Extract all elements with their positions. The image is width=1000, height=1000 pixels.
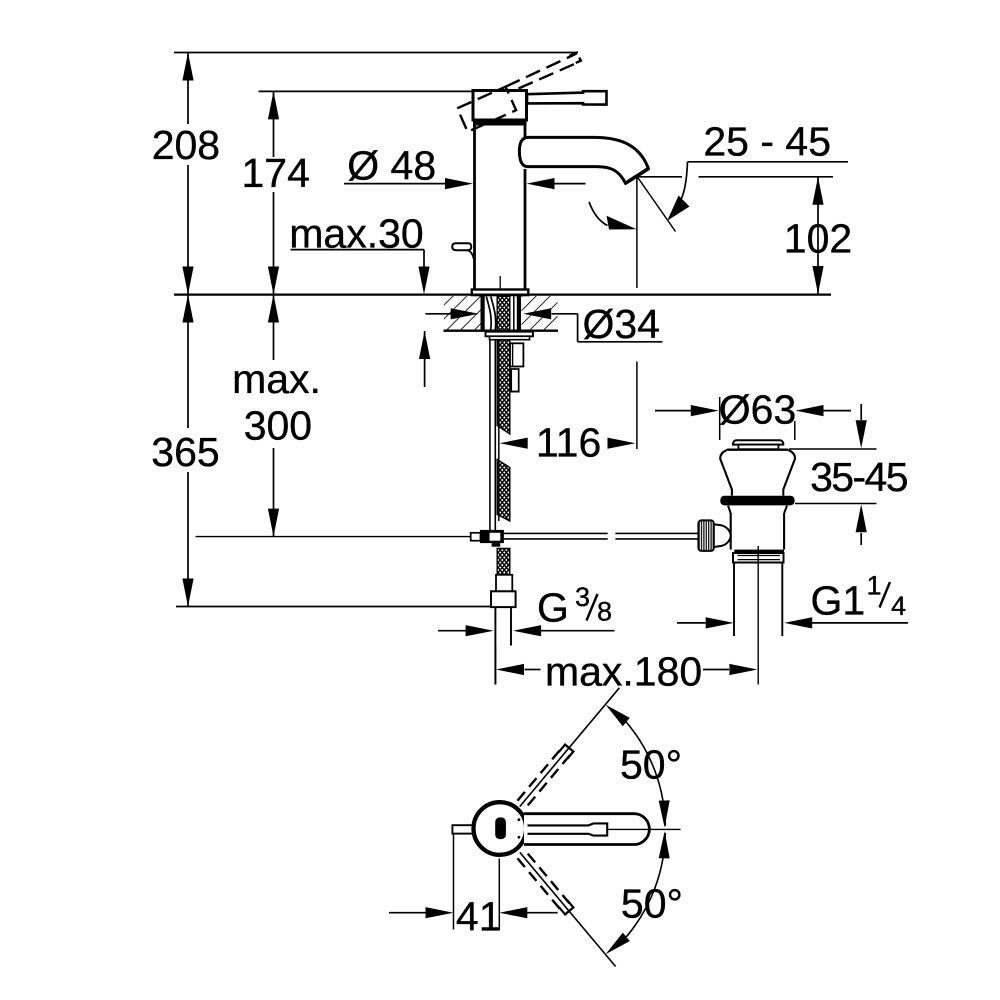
arrow 174 top [268,91,279,119]
dashed lever upper edge [506,54,577,87]
arc arrowheads upper [606,705,630,727]
svg-text:4: 4 [891,591,906,621]
base plate [472,290,529,296]
bell left side [720,450,732,496]
counter hatch left [444,296,481,330]
365 bottom reference line [176,606,491,608]
spout end face line [625,168,649,183]
102 dimension line [817,177,819,295]
shank left wall [481,296,485,331]
shank right wall [517,296,521,331]
hose left edge continuous [498,340,500,521]
hose end tube [494,607,496,684]
hose line through shank [513,297,515,331]
knob-to-body transition [714,524,731,547]
svg-text:41: 41 [456,894,502,940]
spout outlet reference line [637,176,833,178]
flange top line [727,449,788,451]
arrow 102 top [812,177,823,205]
hose bottom fitting [496,575,512,592]
50 degree arcs [626,722,665,826]
arrow 35-45 bottom [856,504,867,532]
braided hose segment 3 [497,549,510,575]
arrow 116 right [608,438,636,449]
cartridge black blob [495,817,506,839]
arrow G1 1/4 right [784,617,812,628]
handle inner slot [528,823,608,835]
arrow Ø48 right [527,178,555,189]
center line to angle vertex [607,828,680,830]
dashed cap outline [457,87,516,132]
svg-text:25 - 45: 25 - 45 [703,119,831,165]
spout [519,137,648,183]
horizontal pop-up rod [504,532,608,534]
arrow max.30 up [419,331,430,359]
svg-text:Ø63: Ø63 [719,386,797,432]
bell right side [783,450,795,496]
arrow max.30 down [418,267,429,295]
lower dashed handle position [518,854,570,911]
arrow 365 top [182,295,193,323]
pop-up rod vertical [489,340,491,531]
svg-text:174: 174 [241,150,309,196]
svg-text:116: 116 [536,419,601,465]
aerator 45 degree line [637,177,675,232]
valve body cylinder [731,513,784,550]
upper dashed tip bracket [559,745,574,759]
svg-text:G: G [537,585,569,631]
dashed lever tip [570,53,581,64]
arrow Ø34 right [523,308,551,319]
angle-adjust arrowhead [667,196,689,221]
leader arc to spout angle line [681,162,688,200]
svg-text:1: 1 [866,571,881,601]
faucet body column [475,124,526,290]
208/365 dimension line [187,53,189,607]
pop-up rod knob on body left [452,243,471,250]
svg-text:300: 300 [244,403,312,449]
arrow Ø63 left [691,405,719,416]
arrow max.300 bottom [268,509,279,537]
lower dashed tip bracket [559,900,574,914]
tailpipe [734,563,782,637]
upper 50 degree line [520,688,620,807]
arrow G1 1/4 left [706,617,734,628]
knurled knob [698,520,713,551]
svg-text:max.: max. [232,356,321,402]
taper below ring [728,506,787,513]
174/max300 dimension line [273,91,275,536]
two small dots [518,818,521,821]
body bottom thick joint [734,550,784,553]
arrow 35-45 top [856,420,867,448]
mounting nut [486,332,534,340]
arrow 116 left [500,438,528,449]
hose-2 stub connector [510,343,523,366]
braided hose segment 2 [497,460,510,522]
arrow max.180 right [729,664,757,675]
svg-text:208: 208 [152,122,220,168]
svg-text:102: 102 [784,216,852,262]
upper dashed handle position [518,748,570,805]
arrow 41 left [426,907,454,918]
counter hatch right [522,296,558,330]
svg-text:50°: 50° [621,881,683,927]
svg-text:max.30: max.30 [289,210,423,256]
plug cap [733,440,783,444]
solid lever handle [527,91,607,104]
counter top line [174,293,831,295]
svg-text:Ø34: Ø34 [582,301,660,347]
25-45 label line [688,161,849,163]
svg-text:G1: G1 [811,578,866,624]
hose end nut [491,591,516,607]
arc arrowheads lower [659,831,670,858]
arrow max.300 top [268,295,279,323]
arrow G3/8 right [513,625,541,636]
arrow 102 bottom [812,266,823,294]
arrow Ø48 left [445,178,473,189]
max300 bottom reference line [196,536,471,538]
svg-text:365: 365 [151,429,219,475]
svg-text:Ø 48: Ø 48 [347,143,436,189]
rod junction block [471,533,481,541]
counter bottom line [444,330,559,332]
svg-text:max.180: max.180 [545,648,702,694]
svg-text:8: 8 [597,597,612,627]
body center line bottom [499,276,501,289]
cap [473,91,527,121]
arrow 365 bottom [182,579,193,607]
dashed lever lower edge [519,62,580,89]
max180 left extension line [494,644,496,685]
arrow Ø63 right [796,405,824,416]
black seal ring [720,496,794,506]
lower 50 degree line [520,852,616,966]
174 top reference line [259,90,475,92]
208 top reference line [174,52,577,54]
arrow 208 bottom [182,267,193,295]
braided hose segment 1 [497,340,510,434]
swivel arc under spout [589,202,608,226]
rod S-bend in shank [486,297,491,331]
arrow 174 bottom [268,267,279,295]
body circle [474,802,527,855]
arrow max.180 left [496,664,524,675]
arrow G3/8 left [466,625,494,636]
handle bar top view [524,814,649,845]
svg-text:3: 3 [575,582,590,612]
arrow 208 top [182,53,193,81]
spout outlet vertical line [636,178,638,450]
black band [473,119,527,126]
inlet tab left of circle [452,825,474,833]
arrow Ø34 left [451,308,479,319]
drain center line [757,546,759,685]
braided hose in shank [497,296,510,330]
arrow 41 right [499,907,527,918]
svg-text:50°: 50° [620,742,682,788]
swivel arrowhead [607,216,637,230]
svg-text:35-45: 35-45 [810,454,908,500]
